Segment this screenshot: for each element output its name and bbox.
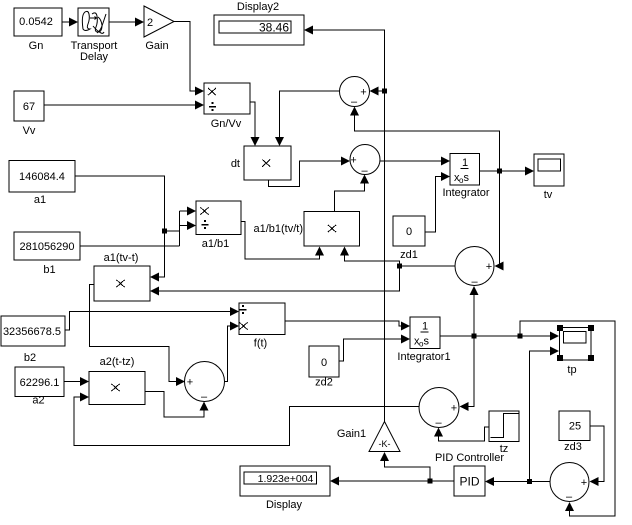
svg-text:Delay: Delay (80, 51, 109, 63)
svg-text:1: 1 (422, 321, 428, 333)
svg-text:b2: b2 (24, 352, 36, 364)
PID controller block (435, 452, 504, 496)
svg-text:Integrator1: Integrator1 (397, 351, 450, 363)
constant block Vv (67) (14, 91, 44, 137)
svg-text:Gn/Vv: Gn/Vv (211, 118, 242, 130)
sum S6 (+ right, - bottom) (550, 463, 589, 504)
svg-text:1: 1 (462, 157, 468, 169)
wire Integrator output to scope tv with junction (480, 167, 535, 176)
svg-text:PID Controller: PID Controller (435, 452, 504, 464)
constant block b1 (281056290) (14, 232, 80, 276)
wire sum S3 output left with junction branches to product inputs (150, 247, 455, 296)
product block dt (231, 146, 291, 180)
product block Gn/Vv (204, 83, 250, 130)
constant block zd1 (0) (393, 216, 425, 261)
integrator block Integrator (442, 154, 489, 200)
svg-text:Gn: Gn (29, 40, 44, 52)
svg-text:a1: a1 (34, 194, 46, 206)
integrator block Integrator1 (397, 317, 450, 363)
svg-text:Integrator: Integrator (442, 187, 489, 199)
wire PID junction up to Gain1 input (380, 452, 430, 481)
wire sum S5 output to a2(t-tz) input 2 (74, 393, 419, 446)
svg-text:0: 0 (406, 226, 412, 238)
divide block f(t) (239, 303, 285, 350)
svg-text:67: 67 (23, 101, 35, 113)
svg-text:Gain: Gain (145, 40, 168, 52)
gain block Gain1 (-K-) pointing up (337, 422, 400, 452)
sum S1 top (+ right, - bottom) (340, 77, 370, 109)
wire Vv to Gn/Vv product input 2 (44, 101, 204, 110)
constant block a2 (62296.1) (15, 367, 64, 407)
svg-text:tv: tv (544, 189, 553, 201)
svg-text:+: + (581, 477, 587, 489)
svg-text:+: + (451, 403, 457, 415)
svg-text:f(t): f(t) (254, 338, 267, 350)
svg-text:32356678.5: 32356678.5 (3, 326, 61, 338)
svg-text:b1: b1 (43, 264, 55, 276)
svg-text:2: 2 (147, 17, 153, 29)
sum S3 large (+ right from tv, - bottom from t) (455, 247, 494, 289)
wire Integrator1 output to scope tp input 1 with junctions (440, 332, 559, 341)
svg-text:+: + (187, 377, 193, 389)
svg-text:a1/b1(tv/t): a1/b1(tv/t) (253, 223, 303, 235)
constant block Gn (0.0542) (14, 8, 62, 52)
svg-text:Display: Display (266, 499, 303, 511)
svg-text:a1/b1: a1/b1 (202, 238, 230, 250)
svg-text:a1(tv-t): a1(tv-t) (104, 252, 139, 264)
svg-text:a2(t-tz): a2(t-tz) (100, 356, 135, 368)
wire zd1 to Integrator input 2 (425, 172, 450, 232)
svg-text:–: – (361, 165, 368, 177)
wire Gn/Vv output to dt input 1 (250, 102, 260, 146)
svg-text:–: – (351, 96, 358, 108)
constant block zd3 (25) (559, 411, 590, 453)
sum S5 (+ right, - bottom) (419, 388, 459, 430)
wire tv feedback into sum S1 bottom input (350, 107, 500, 172)
sum S4 (+ left, - bottom) (185, 362, 225, 404)
wire a1/b1(tv/t) top output to sum S2 bottom input (335, 175, 370, 212)
svg-text:s: s (464, 172, 470, 184)
wire Transport Delay to Gain (109, 18, 144, 27)
svg-text:62296.1: 62296.1 (20, 377, 60, 389)
svg-text:–: – (435, 417, 442, 429)
wire t junction down to sum S5 right input (460, 336, 475, 411)
svg-text:dt: dt (231, 158, 240, 170)
constant block b2 (32356678.5) (1, 316, 65, 364)
wire Gn to Transport Delay (62, 18, 78, 27)
svg-text:zd3: zd3 (564, 441, 582, 453)
svg-text:tp: tp (567, 364, 576, 376)
step block tz (489, 411, 519, 455)
wire tv junction down to sum S3 right input (495, 171, 504, 271)
svg-text:38.46: 38.46 (259, 21, 289, 35)
wire a1(tv-t) output left-down to sum S4 plus input (90, 285, 186, 387)
svg-text:146084.4: 146084.4 (19, 171, 65, 183)
svg-text:+: + (350, 155, 356, 167)
svg-text:Gain1: Gain1 (337, 428, 366, 440)
svg-text:+: + (486, 261, 492, 273)
product block a2(t-tz) (89, 356, 145, 405)
sum S2 (+ left, - bottom) (350, 145, 380, 178)
svg-text:Display2: Display2 (237, 1, 279, 13)
wire sum S1 output to dt input 2 (275, 91, 340, 146)
wire Gain1 output up to Display2 input with junction at S1 (304, 26, 385, 422)
svg-text:–: – (201, 391, 208, 403)
svg-text:+: + (360, 87, 366, 99)
wire f(t) output to Integrator1 input 1 (285, 321, 410, 331)
block Transport Delay U1 (71, 8, 118, 63)
wire a1 to a1(tv-t) input 1 with junction (75, 176, 180, 282)
svg-text:1.923e+004: 1.923e+004 (258, 473, 314, 485)
svg-text:zd2: zd2 (315, 377, 333, 389)
wire zd3 to sum S6 plus input (590, 426, 605, 486)
wire Gain to Gn/Vv product input 1 (174, 22, 204, 96)
constant block zd2 (0) (309, 346, 339, 389)
display block Display (1.923e+004) (240, 466, 330, 511)
divide block a1/b1 (196, 201, 241, 250)
wire a2 to a2(t-tz) input 1 (64, 377, 89, 386)
gain block Gain (2) (144, 6, 174, 52)
wire outer loop from t junction to sum S6 bottom input (520, 321, 615, 516)
wire b2 to f(t) divide input (65, 307, 239, 330)
wire t junction up to sum S3 bottom input (470, 286, 479, 336)
scope block tp selected with handles (557, 325, 594, 376)
wire zd2 to Integrator1 input 2 (339, 335, 410, 362)
svg-text:-K-: -K- (379, 439, 391, 449)
svg-text:–: – (566, 491, 573, 503)
svg-text:281056290: 281056290 (19, 241, 74, 253)
scope block tv (534, 154, 564, 201)
svg-text:zd1: zd1 (400, 249, 418, 261)
svg-text:PID: PID (459, 475, 479, 489)
constant block a1 (146084.4) (9, 161, 75, 207)
svg-text:a2: a2 (32, 395, 44, 407)
svg-text:–: – (471, 276, 478, 288)
wire sum S6 output up to scope tp input 2 (530, 347, 560, 482)
svg-text:s: s (424, 336, 430, 348)
svg-text:0: 0 (321, 357, 327, 369)
svg-text:Vv: Vv (23, 125, 36, 137)
wire sum S2 output to Integrator input 1 (380, 157, 450, 166)
wire dt output to sum S2 left input (269, 157, 351, 187)
product block a1(tv-t) (94, 252, 150, 301)
svg-text:0.0542: 0.0542 (19, 16, 53, 28)
svg-text:25: 25 (569, 421, 581, 433)
product block a1/b1(tv/t) (253, 212, 359, 247)
wire b1 to divide block a1/b1 inputs (80, 207, 196, 247)
wire a1/b1 output to a1/b1(tv/t) bottom input 1 (241, 222, 324, 260)
wire tz output to sum S5 bottom input (434, 427, 489, 441)
display block Display2 (38.46) (214, 1, 304, 45)
wire PID output to Display input with junction (330, 477, 454, 486)
wire Gain1 feedback into sum S1 right input (370, 87, 388, 96)
wire sum S6 output to PID input with junction to tp (485, 477, 550, 486)
wire sum S4 output to f(t) multiply input (225, 322, 240, 382)
wire a2(t-tz) output to sum S4 minus input (145, 392, 209, 418)
